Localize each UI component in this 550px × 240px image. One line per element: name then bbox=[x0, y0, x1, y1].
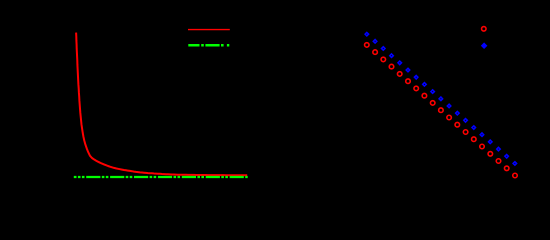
left panel: green dash-dot asymptote line bbox=[74, 176, 248, 178]
right panel: red open-circle series bbox=[365, 43, 518, 178]
right legend: blue filled diamond sample bbox=[481, 42, 488, 49]
right legend: red open circle sample bbox=[482, 27, 487, 32]
left panel: red decaying curve bbox=[76, 33, 247, 176]
left legend: green dash-dot line sample bbox=[188, 44, 229, 47]
left legend: red solid line sample bbox=[188, 29, 230, 31]
right panel: blue open-diamond series bbox=[365, 32, 516, 165]
